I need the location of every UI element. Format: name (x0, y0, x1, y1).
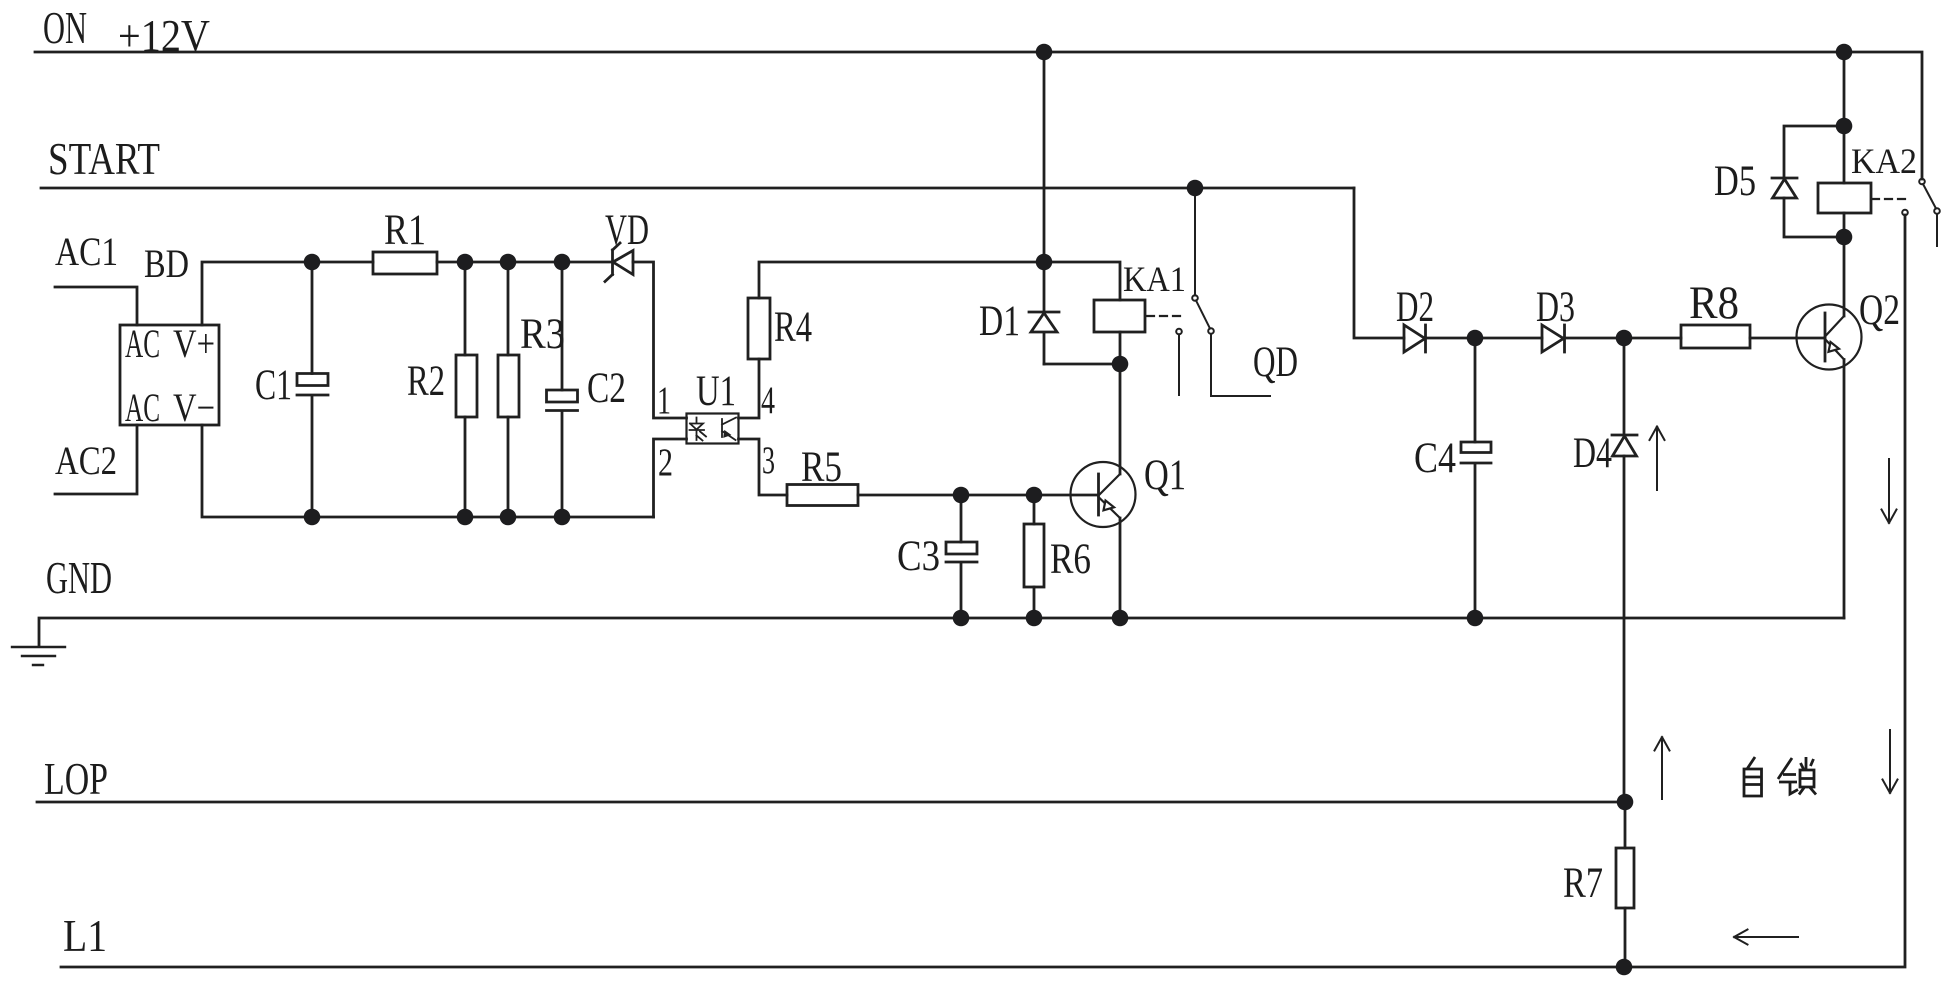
svg-text:AC2: AC2 (55, 438, 117, 483)
capacitor C1 (297, 374, 328, 396)
wire VD to U1 pin1 (633, 262, 687, 418)
resistor R4 (748, 298, 770, 359)
svg-text:START: START (48, 133, 160, 184)
wire R4 top to KA1 (759, 262, 1120, 300)
junction C4 top (1467, 330, 1484, 347)
node LOP rail (37, 801, 1625, 804)
wire AC2 lead (55, 425, 137, 494)
wire R1 to VD (437, 261, 611, 264)
node START rail (41, 187, 1354, 190)
wire KA2 link dashed (1872, 198, 1906, 200)
diode D1 (1029, 312, 1059, 364)
resistor R7 branch (1624, 802, 1627, 967)
wire U1 pin2 (654, 439, 687, 517)
svg-text:KA1: KA1 (1123, 259, 1186, 299)
wire C3 branch (960, 495, 963, 618)
resistor R2 (464, 262, 467, 517)
wire D1 bottom to KA1 bottom (1044, 363, 1120, 366)
wire R8 to Q2 base (1750, 337, 1825, 340)
optocoupler U1 (687, 414, 739, 444)
node L1 rail (61, 215, 1905, 967)
capacitor C2 (561, 262, 564, 517)
transistor Q1 (1071, 462, 1136, 527)
diode D4 (1612, 435, 1637, 456)
svg-text:C2: C2 (587, 365, 626, 412)
junction KA1 bottom node (1112, 356, 1129, 373)
diode D5 branch (1784, 126, 1844, 237)
svg-text:BD: BD (144, 241, 189, 286)
bridge rectifier BD (120, 325, 219, 425)
svg-text:AC: AC (125, 385, 160, 430)
junction R2 bottom (457, 509, 474, 526)
svg-text:R3: R3 (520, 311, 565, 358)
wire Q2 emitter to GND corner (1843, 360, 1846, 619)
switch KA1 contacts QD (1176, 188, 1270, 396)
svg-text:KA2: KA2 (1851, 141, 1917, 181)
svg-text:U1: U1 (696, 368, 736, 415)
svg-text:Q2: Q2 (1859, 287, 1900, 334)
junction R2 top (457, 254, 474, 271)
svg-text:R4: R4 (774, 304, 812, 351)
resistor R6 (1033, 495, 1036, 618)
ground (12, 647, 65, 665)
arrow up beside R7 (1655, 737, 1670, 799)
junction C4 GND (1467, 610, 1484, 627)
diode D2 (1404, 325, 1426, 352)
junction on START (1187, 180, 1204, 197)
junction on +12V at x1044 (1036, 44, 1053, 61)
svg-text:D2: D2 (1396, 284, 1434, 331)
wire U1 pin4 to R4 (739, 359, 760, 418)
svg-text:R6: R6 (1050, 536, 1091, 583)
arrow up beside D4 (1650, 427, 1665, 491)
arrow down lower right (1883, 730, 1898, 793)
switch KA2 contacts (1902, 179, 1940, 246)
junction C3 GND (953, 610, 970, 627)
wire BD V+ output (202, 262, 373, 325)
resistor R8 (1681, 325, 1750, 348)
junction KA2 top (1836, 118, 1853, 135)
svg-text:C3: C3 (897, 533, 940, 580)
svg-text:R7: R7 (1563, 860, 1603, 907)
svg-text:R5: R5 (801, 444, 842, 491)
svg-text:4: 4 (761, 379, 775, 422)
svg-text:D5: D5 (1714, 158, 1756, 205)
resistor R5 (787, 485, 858, 506)
wire +12V to KA2 (1843, 52, 1846, 183)
labels (43, 2, 210, 961)
diode D4 branch (1623, 338, 1626, 802)
svg-text:R1: R1 (384, 207, 426, 254)
arrow down upper right (1882, 459, 1897, 523)
svg-text:1: 1 (657, 379, 671, 422)
wire BD V- output (202, 425, 654, 517)
resistor R3 (507, 262, 510, 517)
wire KA1 bottom to Q1 collector (1119, 332, 1122, 474)
wire D3 to R8 (1565, 337, 1682, 340)
svg-text:V−: V− (173, 385, 215, 430)
resistor R1 (373, 252, 437, 274)
junction LOP R7 (1617, 794, 1634, 811)
capacitor C3 (946, 542, 977, 562)
junction D1 top (1036, 254, 1053, 271)
svg-text:3: 3 (762, 439, 775, 482)
junction C3 top (953, 487, 970, 504)
diode D5 (1772, 178, 1797, 198)
junction R3 bottom (500, 509, 517, 526)
junction C2 top (554, 254, 571, 271)
svg-text:QD: QD (1253, 339, 1298, 386)
wire AC1 lead (55, 287, 137, 325)
capacitor C4 (1461, 442, 1491, 463)
wire D2 to D3 (1426, 337, 1542, 340)
svg-text:+12V: +12V (118, 10, 210, 61)
node GND rail (39, 618, 1844, 646)
resistor R7 (1616, 848, 1634, 908)
junction Q1 emitter GND (1112, 610, 1129, 627)
svg-text:R2: R2 (407, 358, 445, 405)
junction R6 top (1026, 487, 1043, 504)
diode D3 (1542, 325, 1565, 352)
junction C2 bottom (554, 509, 571, 526)
svg-text:V+: V+ (173, 321, 215, 366)
svg-text:C4: C4 (1414, 435, 1456, 482)
svg-text:2: 2 (658, 441, 673, 484)
svg-text:ON: ON (43, 2, 87, 53)
relay coil KA1 (1094, 300, 1145, 332)
junction L1 R7 (1616, 959, 1633, 976)
svg-text:Q1: Q1 (1144, 452, 1186, 499)
junction C1 bottom (304, 509, 321, 526)
svg-text:C1: C1 (255, 362, 292, 409)
junction on +12V at x1844 (1836, 44, 1853, 61)
wire KA1 link dashed (1147, 315, 1183, 317)
junction R6 GND (1026, 610, 1043, 627)
node ON +12V rail (35, 52, 1922, 179)
transistor Q2 (1797, 305, 1862, 370)
wire Q1 emitter to GND (1119, 518, 1122, 618)
svg-text:D3: D3 (1536, 284, 1575, 331)
zener diode VD (605, 243, 633, 282)
wire +12V drop to D1 (1043, 52, 1046, 312)
wire U1 pin3 to R5 (739, 439, 788, 495)
svg-text:D4: D4 (1573, 430, 1612, 477)
svg-text:VD: VD (605, 207, 649, 254)
svg-text:AC: AC (125, 321, 160, 366)
arrow left at bottom (1734, 930, 1798, 945)
wire KA2 bottom to Q2 collector (1843, 213, 1846, 316)
wire R5 to Q1 base (858, 494, 1098, 497)
svg-text:GND: GND (46, 552, 112, 603)
svg-text:D1: D1 (979, 298, 1020, 345)
svg-text:LOP: LOP (44, 753, 108, 804)
label self-lock (zi suo) (1744, 757, 1816, 796)
relay coil KA2 (1818, 183, 1871, 213)
junction C1 top (304, 254, 321, 271)
wire START corner to D2 (1354, 188, 1404, 338)
svg-text:AC1: AC1 (55, 229, 118, 274)
capacitor C4 branch (1474, 338, 1477, 618)
svg-text:R8: R8 (1689, 277, 1739, 329)
wire C1 branch (311, 262, 314, 517)
junction R3 top (500, 254, 517, 271)
svg-text:L1: L1 (63, 910, 107, 961)
junction KA2 bottom (1836, 229, 1853, 246)
junction D4 top (1616, 330, 1633, 347)
